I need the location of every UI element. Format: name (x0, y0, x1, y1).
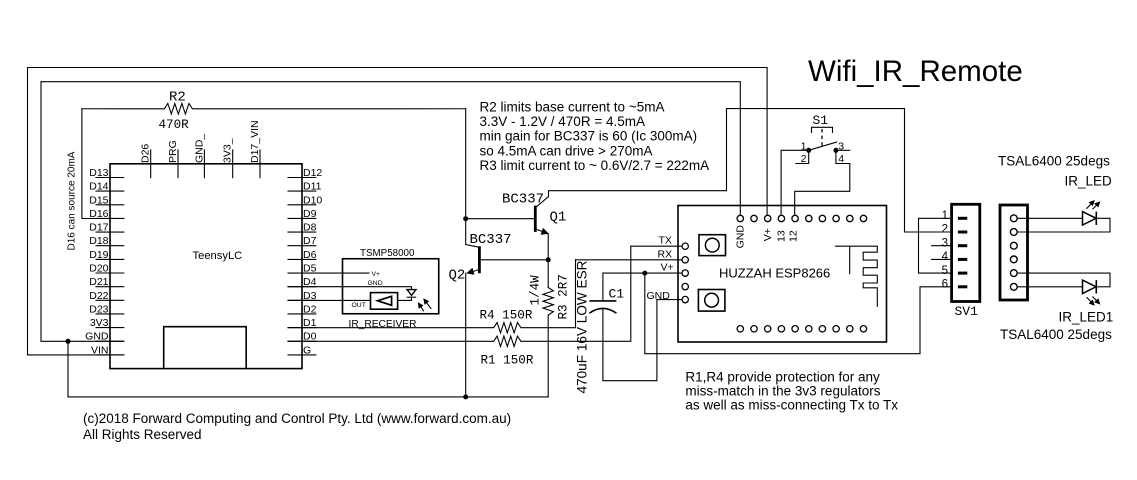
svg-text:OUT: OUT (352, 302, 366, 309)
wire ESP V+ to C1 (603, 273, 682, 300)
wire GND loop to ESP GND (41, 82, 740, 342)
svg-text:Wifi_IR_Remote: Wifi_IR_Remote (808, 55, 1023, 88)
ESP left pad 3 (682, 270, 688, 276)
resistor R2 zigzag (82, 104, 466, 115)
svg-text:G: G (303, 344, 311, 356)
TSMP amplifier triangle (378, 296, 392, 305)
svg-text:D13: D13 (89, 167, 108, 179)
TeensyLC right pin D8 (288, 231, 316, 233)
svg-text:TSAL6400 25degs: TSAL6400 25degs (1000, 327, 1112, 342)
svg-text:3: 3 (942, 237, 948, 249)
svg-text:3.3V - 1.2V / 470R = 4.5mA: 3.3V - 1.2V / 470R = 4.5mA (480, 114, 645, 129)
TeensyLC left pin D13 (96, 177, 124, 179)
svg-text:BC337: BC337 (470, 232, 512, 248)
ESP bottom pad 4 (778, 326, 784, 332)
TeensyLC left pin D16 (96, 217, 124, 219)
transistor Q2 base bar (478, 246, 481, 273)
svg-text:TSMP58000: TSMP58000 (360, 248, 415, 259)
SV1 contact bar 3 (958, 244, 967, 247)
LED D2 cathode bar (1095, 280, 1097, 293)
ESP bottom pad 2 (751, 326, 757, 332)
ESP top pad 1 (737, 215, 743, 221)
LED header pad 5 (1010, 270, 1017, 277)
wire Teensy D4 to TSMP GND pin (288, 287, 412, 290)
ESP bottom pad 3 (765, 326, 771, 332)
TeensyLC right pin G (288, 354, 316, 356)
TeensyLC left pin D17 (96, 231, 124, 233)
ESP left pad 2 (682, 257, 688, 263)
S1 pin 4 wire to ESP pad 12 (795, 150, 850, 215)
S1 pin 1 node dot (806, 148, 811, 153)
TeensyLC left pin D22 (96, 299, 124, 301)
svg-text:3V3_: 3V3_ (222, 138, 234, 163)
svg-text:V+: V+ (372, 271, 381, 278)
LED header pad 2 (1010, 229, 1017, 236)
ESP button 2 (698, 290, 725, 312)
TeensyLC top pin 3V3_ (232, 150, 234, 178)
ESP wifi antenna meander (836, 246, 878, 306)
SV1 contact bar 4 (958, 258, 967, 261)
svg-text:TX: TX (659, 235, 672, 247)
ESP top pad 10 (860, 215, 866, 221)
svg-text:D6: D6 (303, 249, 317, 261)
TeensyLC right pin D10 (288, 204, 316, 206)
svg-text:Q2: Q2 (449, 268, 466, 284)
svg-text:GND: GND (647, 290, 671, 302)
TeensyLC left pin D20 (96, 272, 124, 274)
connector X1 LED header body (1000, 205, 1028, 300)
svg-text:1/4W: 1/4W (529, 275, 543, 306)
ESP top pad 5 (792, 215, 798, 221)
svg-text:R2 limits base current to ~5mA: R2 limits base current to ~5mA (480, 99, 665, 114)
SV1 pins 1 and 5 tie wire (919, 218, 952, 273)
svg-text:3V3: 3V3 (90, 317, 109, 329)
ESP top pad 9 (847, 215, 853, 221)
wire V+ to SV1 pin 6 (645, 273, 952, 354)
resistor R1 150R (288, 246, 631, 346)
ESP bottom pad 1 (737, 326, 743, 332)
TeensyLC right pin D5 (288, 272, 316, 274)
TeensyLC right pin D7 (288, 245, 316, 247)
svg-text:R3 limit current to ~ 0.6V/2.7: R3 limit current to ~ 0.6V/2.7 = 222mA (480, 158, 710, 173)
ESP bottom pad 9 (847, 326, 853, 332)
LED D2 IR_LED1 wires (1017, 273, 1110, 287)
S1 pin 1 wire to ESP pad 13 (781, 150, 809, 215)
svg-text:2: 2 (801, 153, 807, 165)
TeensyLC left pin 3V3 (96, 327, 124, 329)
svg-text:4: 4 (838, 153, 844, 165)
svg-text:R3 2R7: R3 2R7 (557, 274, 571, 319)
svg-text:min gain for BC337 is 60 (Ic 3: min gain for BC337 is 60 (Ic 300mA) (480, 129, 698, 144)
wire Teensy D3 to TSMP OUT pin (288, 299, 371, 301)
svg-text:2: 2 (942, 224, 948, 236)
svg-text:R4 150R: R4 150R (480, 309, 533, 323)
TeensyLC right pin D4 (288, 286, 316, 288)
svg-text:D12: D12 (303, 167, 322, 179)
svg-text:S1: S1 (813, 113, 829, 128)
TeensyLC left pin D18 (96, 245, 124, 247)
svg-text:1: 1 (801, 140, 807, 152)
TSMP photodiode (407, 290, 416, 296)
junction Q1 emitter Q2 base (546, 257, 551, 262)
svg-text:R2: R2 (169, 89, 186, 105)
Q1 emitter wire to R3 (547, 234, 549, 288)
ESP top pad 4 (778, 215, 784, 221)
IC IR1 TSMP58000 body (343, 259, 439, 314)
S1 actuator bracket (812, 127, 833, 132)
wire VIN to ESP V+ outer loop (28, 68, 768, 355)
svg-text:TeensyLC: TeensyLC (193, 250, 243, 262)
svg-text:13: 13 (776, 230, 788, 242)
svg-text:D15: D15 (89, 194, 108, 206)
svg-text:Q1: Q1 (550, 210, 567, 226)
svg-text:D19: D19 (89, 249, 108, 261)
svg-text:TSAL6400 25degs: TSAL6400 25degs (998, 154, 1110, 169)
wire GND bus to bottom (68, 341, 548, 397)
TeensyLC left pin D19 (96, 258, 124, 260)
svg-text:D23: D23 (89, 303, 108, 315)
LED D2 triangle (1083, 280, 1097, 293)
TeensyLC top pin PRG (177, 150, 179, 178)
TSMP incoming light arrow 1 (421, 307, 423, 311)
TSMP amplifier box (371, 293, 398, 310)
ESP top pad 6 (806, 215, 812, 221)
TeensyLC left pin GND (96, 340, 124, 342)
connector SV1 body (952, 204, 980, 301)
Q2 emitter wire down to GND bus (465, 273, 467, 397)
TeensyLC right pin D11 (288, 190, 316, 192)
TeensyLC left pin D21 (96, 286, 124, 288)
svg-text:SV1: SV1 (955, 304, 979, 319)
junction on GND wire (66, 339, 71, 344)
wire Q1 base (466, 218, 534, 220)
svg-text:D14: D14 (89, 181, 108, 193)
svg-text:V+: V+ (661, 262, 674, 274)
svg-text:D10: D10 (303, 194, 322, 206)
TeensyLC top pin GND_ (203, 150, 205, 178)
resistor R3 2R7 zigzag (543, 288, 553, 397)
svg-text:D20: D20 (89, 263, 108, 275)
TeensyLC right pin D2 (288, 313, 316, 315)
SV1 contact bar 5 (958, 272, 967, 275)
svg-text:D11: D11 (303, 181, 322, 193)
svg-text:D9: D9 (303, 208, 317, 220)
svg-text:6: 6 (942, 279, 948, 291)
TeensyLC right pin D9 (288, 217, 316, 219)
svg-text:3: 3 (838, 140, 844, 152)
wire ESP GND pin (657, 299, 682, 301)
svg-text:D21: D21 (89, 276, 108, 288)
svg-text:4: 4 (942, 251, 949, 263)
svg-text:12: 12 (788, 230, 800, 242)
SV1 contact bar 2 (958, 231, 967, 234)
svg-text:R1,R4 provide protection for a: R1,R4 provide protection for any (685, 370, 880, 385)
TeensyLC left pin VIN (96, 354, 124, 356)
svg-text:IR_LED: IR_LED (1065, 173, 1113, 188)
TeensyLC bottom tab (164, 327, 247, 369)
LED D1 emission arrow 1 (1087, 204, 1091, 208)
junction V+ wire (642, 271, 647, 276)
wire ESP TX to R1 (631, 245, 682, 247)
TeensyLC left pin D23 (96, 313, 124, 315)
LED D1 emission arrow 2 (1093, 206, 1096, 209)
ESP top pad 8 (833, 215, 839, 221)
Q2 emitter with arrow (473, 270, 478, 271)
ESP bottom pad 5 (792, 326, 798, 332)
LED header pad 4 (1010, 256, 1017, 263)
svg-text:All Rights Reserved: All Rights Reserved (83, 427, 202, 442)
TeensyLC right pin D6 (288, 258, 316, 260)
LED D2 emission arrow 1 (1087, 298, 1091, 302)
wire D16 to R2 (82, 109, 124, 219)
svg-text:D2: D2 (303, 303, 317, 315)
TeensyLC top pin D26 (150, 150, 152, 178)
LED D1 IR_LED wires (1017, 217, 1082, 219)
ESP top pad 2 (751, 215, 757, 221)
module U2 HUZZAH ESP8266 body (678, 206, 887, 343)
svg-text:C1: C1 (609, 287, 625, 302)
svg-text:D26: D26 (140, 144, 152, 163)
LED header pad 6 (1010, 283, 1017, 290)
ESP bottom pad 6 (806, 326, 812, 332)
TeensyLC left pin D15 (96, 204, 124, 206)
svg-text:PRG: PRG (167, 140, 179, 163)
S1 pin 3 stub (836, 149, 850, 151)
Q2 base wire to Q1 emitter (481, 259, 548, 261)
svg-text:RX: RX (658, 248, 673, 260)
resistor R4 150R (288, 260, 576, 333)
TeensyLC right pin D0 (288, 340, 316, 342)
IC U1 TeensyLC body (110, 164, 302, 369)
svg-text:IR_LED1: IR_LED1 (1059, 310, 1114, 325)
svg-text:IR_RECEIVER: IR_RECEIVER (349, 319, 417, 330)
TeensyLC left pin D14 (96, 190, 124, 192)
transistor Q1 base bar (534, 206, 537, 232)
svg-text:D18: D18 (89, 235, 108, 247)
svg-text:D17_VIN: D17_VIN (249, 120, 261, 163)
TeensyLC right pin D1 (288, 327, 316, 329)
ESP top pad 7 (819, 215, 825, 221)
Q1 collector wire to SV1 pin 2 (537, 109, 952, 232)
TeensyLC right pin D12 (288, 177, 316, 179)
C1 bottom lead to GND wire (603, 300, 657, 381)
svg-text:(c)2018 Forward Computing and: (c)2018 Forward Computing and Control Pt… (83, 411, 511, 426)
svg-text:HUZZAH ESP8266: HUZZAH ESP8266 (719, 266, 830, 281)
wire Teensy D5 to TSMP V+ pin (288, 272, 369, 274)
ESP antenna stem (849, 246, 851, 274)
svg-text:GND: GND (368, 280, 383, 287)
svg-text:D17: D17 (89, 222, 108, 234)
SV1 pin 4 stub (932, 258, 952, 260)
SV1 contact bar 6 (958, 285, 967, 288)
svg-text:D16 can source 20mA: D16 can source 20mA (67, 151, 78, 250)
svg-text:D8: D8 (303, 222, 317, 234)
ESP bottom pad 7 (819, 326, 825, 332)
Q1 emitter with arrow (537, 230, 542, 232)
svg-text:miss-match in the 3v3 regulato: miss-match in the 3v3 regulators (685, 384, 880, 399)
LED header pad 1 (1010, 215, 1017, 222)
wire ESP RX to R4 (576, 259, 682, 261)
svg-text:470uF 16V LOW ESR: 470uF 16V LOW ESR (575, 260, 590, 393)
S1 pin 3 node dot (833, 148, 838, 153)
svg-text:1: 1 (942, 210, 948, 222)
ESP bottom pad 10 (860, 326, 866, 332)
SV1 contact bar 1 (958, 217, 967, 220)
ESP left pad 4 (682, 283, 688, 289)
svg-text:BC337: BC337 (502, 192, 544, 208)
LED D1 cathode bar (1095, 212, 1097, 225)
svg-text:470R: 470R (159, 118, 190, 132)
wire amplifier out to photodiode (398, 297, 412, 300)
svg-text:V+: V+ (762, 228, 774, 241)
svg-text:so 4.5mA can drive > 270mA: so 4.5mA can drive > 270mA (480, 143, 653, 158)
ESP left pad 5 (682, 296, 688, 302)
TeensyLC right pin D3 (288, 299, 316, 301)
SV1 pin 3 stub (932, 245, 952, 247)
svg-text:D22: D22 (89, 290, 108, 302)
S1 pin 2 stub (796, 150, 809, 163)
svg-text:as well as miss-connecting Tx: as well as miss-connecting Tx to Tx (685, 398, 898, 413)
TSMP incoming light arrow 2 (427, 303, 431, 309)
LED D2 emission arrow 2 (1093, 297, 1096, 300)
svg-text:R1 150R: R1 150R (481, 353, 534, 367)
svg-text:D7: D7 (303, 235, 317, 247)
junction Q2 emitter GND bus (463, 394, 468, 399)
ESP button 1 (699, 235, 726, 256)
S1 lever contact (809, 142, 837, 150)
svg-text:5: 5 (942, 265, 948, 277)
Q2 collector to R2 node (466, 109, 478, 247)
ESP top pad 3 (765, 215, 771, 221)
capacitor C1 top plate (589, 300, 616, 302)
svg-text:GND_: GND_ (193, 134, 205, 163)
svg-text:GND: GND (735, 225, 747, 249)
LED header pad 3 (1010, 242, 1017, 249)
ESP bottom pad 8 (833, 326, 839, 332)
ESP left pad 1 (682, 243, 688, 249)
Q1 base wire junction dot (463, 216, 468, 221)
S1 actuator dashed stem (821, 129, 823, 148)
TeensyLC top pin D17_VIN (259, 150, 261, 178)
capacitor C1 bottom curved plate (589, 308, 616, 313)
LED D1 triangle (1083, 212, 1097, 225)
